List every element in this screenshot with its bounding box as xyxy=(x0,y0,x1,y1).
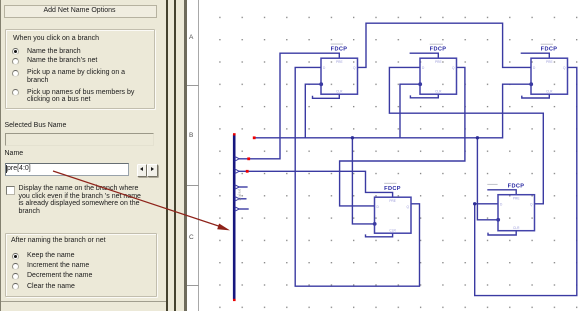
wire bus tap3 stub xyxy=(235,186,248,188)
flip-flop U5 FDCP xyxy=(498,195,535,231)
radio: Name the branch's net xyxy=(12,58,19,65)
junction D5 xyxy=(473,202,476,205)
bus pre[4:0] xyxy=(233,135,236,300)
bus tap arrow 1 xyxy=(235,157,239,161)
branch end marker tap2 xyxy=(246,170,249,173)
row label A xyxy=(189,34,193,42)
bus tap arrow 2 xyxy=(235,169,239,173)
group box: after naming the branch or net xyxy=(5,233,157,297)
label Selected Bus Name xyxy=(5,122,67,130)
instance label ghost U4 xyxy=(384,183,396,184)
splitter dark line 2 xyxy=(174,0,176,311)
header box: Add Net Name Options xyxy=(4,5,157,18)
svg-text:PRE: PRE xyxy=(336,60,343,64)
left window edge xyxy=(0,0,1,311)
row divider C/D xyxy=(187,285,200,286)
wire clock branch to C of U1 xyxy=(305,84,321,138)
annotation arrow from Name field to bus xyxy=(53,171,223,228)
name input field xyxy=(5,163,129,176)
checkbox display-the-name xyxy=(6,186,15,195)
wire CLR stub U5 xyxy=(488,231,516,236)
flip-flop U3 FDCP xyxy=(531,58,568,94)
flip-flop U2 FDCP xyxy=(420,58,457,94)
group box: when you click on a branch xyxy=(5,29,155,109)
wire CLR stub U1 xyxy=(313,94,340,98)
bus tap arrow 3 xyxy=(235,185,239,189)
disabled bus name field xyxy=(5,133,154,146)
panel right dark edge xyxy=(184,0,187,311)
row divider B/C xyxy=(187,185,200,186)
instance label ghost U2 xyxy=(430,44,443,45)
left options panel background xyxy=(0,0,186,311)
row divider A/B xyxy=(187,85,200,86)
branch end marker tap1 xyxy=(247,157,250,160)
panel bottom divider xyxy=(0,301,166,302)
wire clock branch to C of U2 xyxy=(400,84,420,138)
instance label ghost U1 xyxy=(331,44,343,45)
wire net pre(4) : bus tap1 to PRE of U1 xyxy=(235,53,339,159)
bus tap arrow 5 xyxy=(235,207,239,211)
wire CLR stub U3 xyxy=(522,94,550,98)
spin button left xyxy=(137,164,148,177)
svg-text:CLR: CLR xyxy=(435,90,442,94)
radio: Decrement the name xyxy=(12,273,19,280)
svg-text:FDCP: FDCP xyxy=(430,47,447,53)
radio: Increment the name xyxy=(12,263,19,270)
flip-flop U4 FDCP xyxy=(375,197,412,233)
clock bubble U1 xyxy=(319,82,323,86)
wire Q3 to D5 xyxy=(475,67,577,295)
svg-text:FDCP: FDCP xyxy=(384,186,401,192)
junction clock/C4 xyxy=(351,136,354,139)
svg-text:FDCP: FDCP xyxy=(541,47,558,53)
wire Q4 to D1 xyxy=(295,67,419,286)
junction clock/C5 xyxy=(476,136,479,139)
wire Q1 to D3 xyxy=(358,23,532,67)
branch end marker clock rail xyxy=(253,136,256,139)
radio: Pick up names of bus members xyxy=(12,89,19,96)
svg-text:FDCP: FDCP xyxy=(508,184,525,190)
radio: Pick up a name by clicking on a branch xyxy=(12,70,19,77)
svg-text:CLR: CLR xyxy=(389,229,396,233)
wire bus tap4 stub xyxy=(235,198,247,200)
wire clock branch to C of U4 xyxy=(352,138,374,224)
clock bubble U3 xyxy=(529,82,533,86)
row label B xyxy=(189,132,193,140)
wire CLR stub U4 xyxy=(366,233,393,237)
svg-text:FDCP: FDCP xyxy=(331,47,348,53)
clock bubble U2 xyxy=(418,82,422,86)
wire Q2 to D4 xyxy=(340,67,465,206)
svg-text:CLR: CLR xyxy=(513,226,520,230)
row label strip right border xyxy=(198,0,199,311)
svg-text:CLR: CLR xyxy=(336,90,343,94)
row label C xyxy=(189,234,194,242)
radio: Keep the name (selected) xyxy=(12,253,19,260)
splitter dark line 1 xyxy=(166,0,168,311)
wire net pre(3) : bus tap2 to PRE of U4 xyxy=(235,171,393,197)
svg-text:PRE: PRE xyxy=(546,60,553,64)
wire Q5 to D2 xyxy=(389,67,543,203)
instance label ghost U5 xyxy=(487,184,497,185)
wire CLR stub U2 xyxy=(410,94,438,98)
wire clock rail xyxy=(254,84,531,138)
row label strip xyxy=(187,0,199,311)
wire PRE stub U5 xyxy=(487,190,516,195)
svg-text:PRE: PRE xyxy=(435,60,442,64)
instance label ghost U3 xyxy=(541,44,553,45)
svg-text:CLR: CLR xyxy=(546,90,553,94)
bus tap arrow 4 xyxy=(235,197,239,201)
svg-text:PRE: PRE xyxy=(389,199,396,203)
wire clock branch to C of U5 xyxy=(477,138,498,220)
svg-text:pre[4:0]: pre[4:0] xyxy=(237,189,241,201)
wire PRE stub U3 xyxy=(521,53,550,58)
clock bubble U5 xyxy=(496,218,500,222)
spin button right xyxy=(147,164,158,177)
clock bubble U4 xyxy=(373,222,377,226)
bus end marker bottom xyxy=(233,299,236,301)
flip-flop U1 FDCP xyxy=(321,58,358,94)
wire PRE stub U2 xyxy=(410,53,439,58)
radio: Name the branch (selected) xyxy=(12,48,19,55)
bus end marker top xyxy=(233,133,236,135)
radio: Clear the name xyxy=(12,283,19,290)
svg-text:PRE: PRE xyxy=(513,197,520,201)
label Name xyxy=(5,150,24,158)
wire bus tap5 stub xyxy=(235,208,249,210)
